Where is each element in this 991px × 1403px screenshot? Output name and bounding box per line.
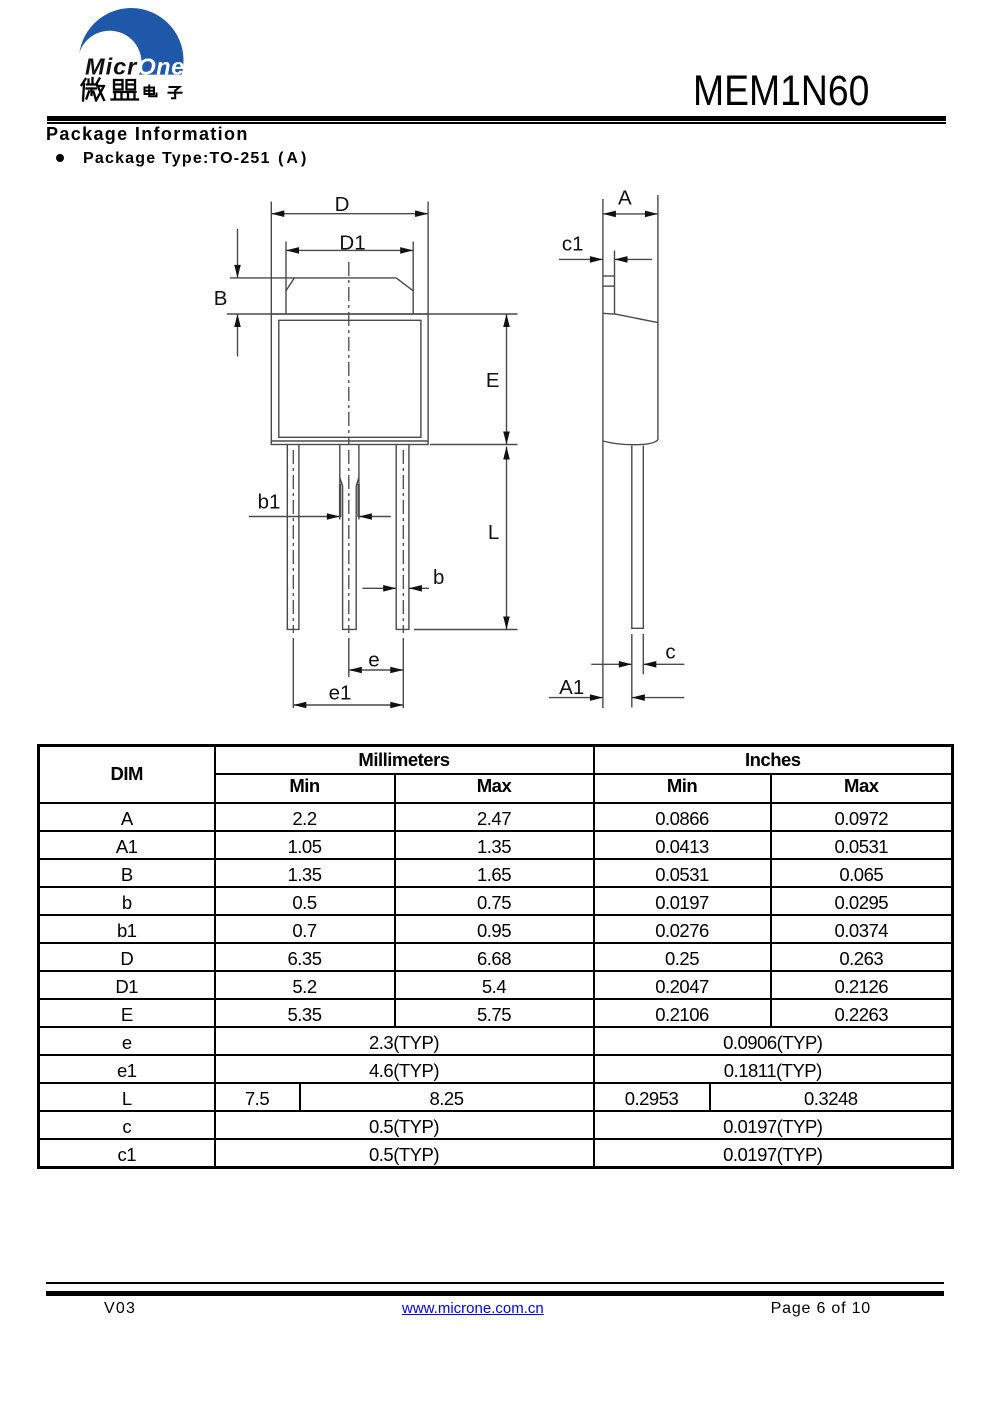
dimension b1 line left <box>249 516 340 518</box>
side view: tab inner line <box>614 251 616 314</box>
logo hanzi ZI <box>169 87 182 98</box>
front view: body top line + B/E extensions <box>227 313 518 315</box>
dimension E line <box>506 314 508 445</box>
side view: right extension/body edge <box>657 195 659 440</box>
front view: body centerline <box>348 262 350 445</box>
svg-text:b: b <box>433 566 444 589</box>
side view: lead <box>632 446 644 629</box>
arrowheads D <box>271 210 284 217</box>
header rule thick <box>47 116 946 121</box>
front view: D extension line left <box>270 202 272 314</box>
arrowheads A <box>603 211 616 218</box>
dimension L line <box>506 447 508 630</box>
arrowheads e1 <box>293 702 306 709</box>
dimension A line <box>603 213 658 215</box>
arrowheads c <box>619 661 632 668</box>
front view: center lead narrow part <box>343 486 357 629</box>
front view: D1 extension line right <box>412 242 414 315</box>
arrowheads E <box>503 314 510 327</box>
MicrOne logo <box>0 0 220 110</box>
side view: body top slant <box>603 313 658 322</box>
arrowheads A1 <box>590 694 603 701</box>
front view: center lead centerline <box>348 450 350 633</box>
header rule thin <box>47 122 946 124</box>
front view: left lead lower extension <box>292 638 294 708</box>
dimension b line right <box>409 587 429 589</box>
arrowheads e <box>349 667 362 674</box>
svg-text:A: A <box>618 187 632 210</box>
dimension B tail top <box>237 229 239 278</box>
svg-text:E: E <box>486 369 500 392</box>
dimension e1 line <box>293 704 403 706</box>
front view: D extension line right <box>427 202 429 314</box>
svg-text:e1: e1 <box>329 682 352 705</box>
logo hanzi WEI <box>82 78 105 101</box>
front view: tab left bevel <box>286 278 294 291</box>
footer rule thick <box>46 1291 944 1296</box>
dimension b1 line right <box>359 516 391 518</box>
dimension D1 line <box>286 249 413 251</box>
front view: center lead neck jogs <box>340 478 359 487</box>
front view: body outline <box>271 314 428 445</box>
front view: center lead wide stub <box>340 445 359 520</box>
arrowheads b <box>383 585 396 592</box>
svg-text:B: B <box>214 287 228 310</box>
svg-text:c1: c1 <box>562 233 584 256</box>
arrowhead B up <box>234 314 241 327</box>
footer version <box>104 1300 136 1317</box>
arrowheads L <box>503 447 510 460</box>
svg-text:c: c <box>665 641 675 664</box>
front view: body inner frame <box>279 320 421 437</box>
front view: left lead <box>287 445 299 629</box>
arrowheads b1 <box>327 513 340 520</box>
svg-text:D: D <box>335 193 350 216</box>
arrowheads c1 <box>590 256 603 263</box>
dimension c line right <box>643 663 684 665</box>
front view: tab right bevel <box>396 278 413 291</box>
dimension D line <box>271 213 428 215</box>
side view: body bottom curve <box>603 440 658 445</box>
front view: left lead centerline <box>292 450 294 633</box>
front view: center lead lower extension <box>348 638 350 677</box>
side view: lead extension for A1 <box>631 634 633 708</box>
front view: tab top edge + B extension <box>230 277 396 279</box>
svg-text:e: e <box>368 649 379 672</box>
dimension c1 line left <box>559 258 603 260</box>
svg-text:b1: b1 <box>258 491 281 514</box>
footer rule thin <box>46 1282 944 1284</box>
logo white inner circle <box>78 31 142 95</box>
bullet <box>56 154 64 162</box>
side view: tab tick 1 <box>603 275 615 277</box>
svg-text:A1: A1 <box>559 676 584 699</box>
dimension A1 line right <box>632 697 685 699</box>
front view: right lead <box>396 445 409 629</box>
footer page number <box>671 1300 871 1317</box>
arrowhead B down <box>234 265 241 278</box>
side view: lead extension for c <box>642 634 644 674</box>
front view: center lead stub bold segments <box>340 484 359 517</box>
bullet text <box>83 150 309 167</box>
logo hanzi MENG <box>112 80 139 100</box>
front view: body bottom extension for E/L <box>430 444 518 446</box>
dimension A1 line left <box>549 697 603 699</box>
front view: body bottom inner line <box>271 440 428 442</box>
front view: right lead lower extension <box>402 638 404 708</box>
section title <box>46 125 249 144</box>
dimension c1 line right <box>615 258 653 260</box>
front view: D1 extension line left <box>285 242 287 315</box>
side view: tab tick 2 <box>603 285 615 287</box>
dimension b line left <box>362 587 396 589</box>
svg-text:D1: D1 <box>339 232 365 255</box>
front view: lead bottom extension for L <box>414 629 518 631</box>
front view: right lead centerline <box>402 450 404 633</box>
dimension c line left <box>591 663 632 665</box>
side view: left profile line <box>602 199 604 708</box>
logo hanzi DIAN <box>145 86 157 97</box>
svg-text:L: L <box>488 521 499 544</box>
footer link <box>402 1301 542 1317</box>
dimension e line <box>349 669 404 671</box>
arrowheads D1 <box>286 247 299 254</box>
part number <box>693 69 869 112</box>
logo blue dome <box>79 8 184 113</box>
dimension B tail bottom <box>237 314 239 357</box>
